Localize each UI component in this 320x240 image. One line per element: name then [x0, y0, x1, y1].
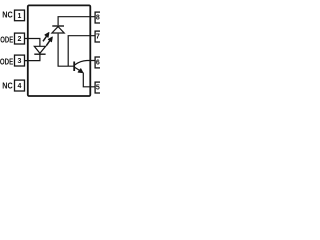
wire pin2 to LED anode [25, 39, 40, 47]
svg-text:6: 6 [96, 60, 100, 67]
photodiode cathode bar [52, 25, 64, 27]
wire pin7 to base node [68, 36, 95, 66]
svg-text:7: 7 [96, 34, 100, 41]
pin 6 box [95, 57, 106, 68]
svg-text:5: 5 [96, 85, 100, 92]
svg-text:NC: NC [2, 80, 12, 90]
transistor Q1 base bar [73, 62, 75, 72]
wire LED cathode to pin3 [25, 54, 40, 60]
wire photodiode anode to base node [58, 34, 74, 67]
pin 7 box [95, 31, 106, 42]
pin 3 box [15, 55, 25, 66]
pin 4 box [15, 80, 25, 91]
pin 5 box [95, 82, 106, 93]
svg-text:3: 3 [18, 58, 22, 65]
wire pin8 to photodiode cathode [58, 17, 95, 26]
photodiode D2 triangle [52, 27, 64, 33]
svg-text:8: 8 [96, 15, 100, 22]
wire emitter to pin5 [83, 73, 95, 87]
pin 1 box [15, 10, 25, 21]
light arrow 1 [43, 33, 49, 42]
pin 2 box [15, 33, 25, 44]
transistor emitter + arrowhead [75, 67, 83, 72]
IC body U1 [28, 5, 91, 96]
svg-text:CATHODE: CATHODE [0, 56, 14, 66]
pin 8 box [95, 12, 106, 23]
LED D1 triangle [34, 46, 45, 53]
svg-text:4: 4 [18, 83, 22, 90]
transistor collector + wire to pin6 [75, 61, 95, 65]
svg-text:ANODE: ANODE [0, 34, 14, 44]
svg-text:1: 1 [18, 13, 22, 20]
svg-text:NC: NC [2, 10, 12, 20]
svg-text:2: 2 [18, 36, 22, 43]
light arrow 2 [46, 37, 52, 46]
LED cathode bar [34, 53, 45, 55]
